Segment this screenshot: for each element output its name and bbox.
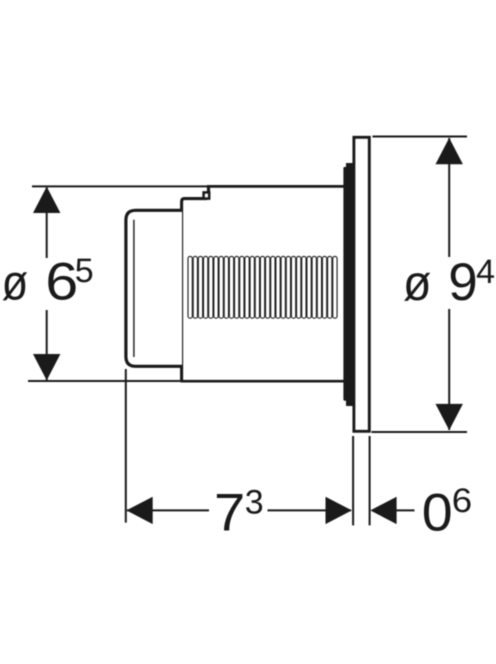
label: o 6^5	[2, 252, 94, 312]
svg-text:ø: ø	[403, 255, 431, 311]
arrowhead left (7.3)	[126, 497, 152, 524]
arrowhead up (o6.5 top)	[33, 187, 60, 213]
wire: dim ext line bottom-left (o6.5 lower)	[28, 380, 180, 382]
svg-text:3: 3	[245, 483, 264, 521]
wire: dimension line o6.5 lower segment	[46, 310, 48, 380]
label: o 9^4	[403, 253, 495, 312]
svg-text:4: 4	[476, 253, 495, 291]
svg-text:7: 7	[214, 483, 245, 542]
flange: cover plate	[354, 137, 369, 431]
body: mid section front face and top edge	[182, 199, 207, 381]
svg-text:ø: ø	[2, 255, 29, 311]
body: rear section top edge	[207, 185, 346, 188]
wire: dim ext line bottom-right (o9.4 lower)	[372, 431, 468, 433]
button: face inner line	[133, 220, 135, 357]
svg-text:0: 0	[422, 483, 453, 542]
arrowhead right (7.3)	[326, 497, 352, 524]
wire: dimension line o9.4 upper segment	[448, 138, 450, 257]
wire: 7.3 dimension line left segment	[127, 509, 209, 511]
arrowhead down (o6.5 bottom)	[33, 354, 60, 380]
thread: knurled collar teeth	[188, 256, 337, 318]
gasket: seal strip (wide part)	[343, 167, 349, 401]
button: front cap outline	[126, 210, 182, 366]
svg-text:9: 9	[448, 253, 477, 312]
wire: dim ext line top-left (o6.5 upper)	[32, 185, 207, 187]
wire: 0.6 dimension tail	[396, 509, 415, 511]
arrowhead down (o9.4 bottom)	[436, 404, 463, 430]
wire: dimension line o6.5 upper segment	[46, 188, 48, 259]
wire: dimension line o9.4 lower segment	[448, 309, 450, 430]
arrowhead left-pointing (0.6)	[370, 497, 396, 524]
body: rear section bottom edge	[180, 380, 345, 383]
wire: ext line vertical (0.6 right)	[369, 436, 371, 525]
gasket: seal strip (narrow, against flange)	[346, 163, 353, 406]
wire: ext line vertical (0.6 left)	[352, 436, 354, 525]
wire: 7.3 dimension line right segment	[268, 509, 352, 511]
svg-text:5: 5	[75, 252, 94, 290]
body: anti-rotation lug step	[207, 186, 210, 192]
wire: ext line vertical left (7.3 dim)	[125, 369, 127, 523]
label: 7^3	[214, 483, 264, 542]
svg-text:6: 6	[45, 253, 78, 312]
arrowhead up (o9.4 top)	[436, 138, 463, 164]
svg-text:6: 6	[452, 482, 472, 520]
body: anti-rotation lug	[204, 192, 210, 198]
wire: dim ext line top-right (o9.4 upper)	[373, 136, 468, 138]
label: 0^6	[422, 482, 473, 542]
